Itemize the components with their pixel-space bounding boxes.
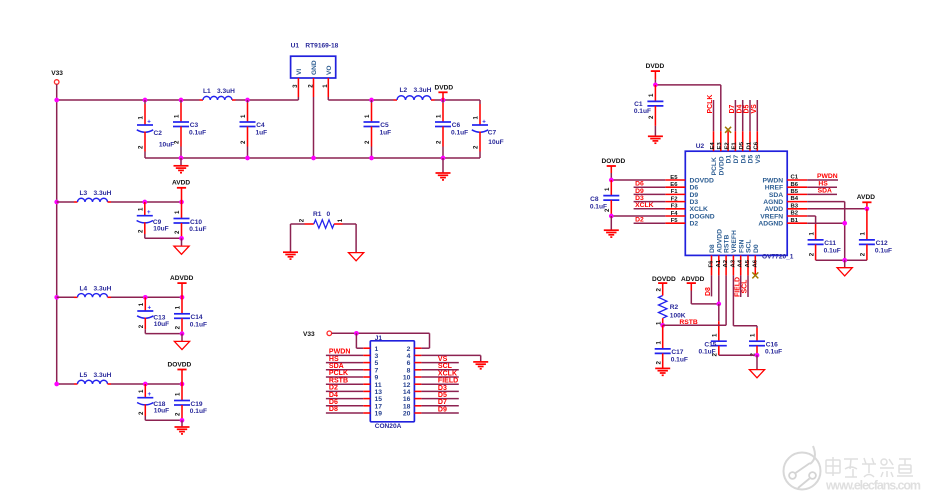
svg-text:17: 17 bbox=[375, 403, 383, 410]
svg-text:6: 6 bbox=[407, 360, 411, 367]
svg-text:F4: F4 bbox=[671, 211, 679, 217]
svg-text:AGND: AGND bbox=[763, 199, 783, 206]
no-connect X on U2 pin A6 bbox=[752, 272, 758, 278]
svg-text:PWDN: PWDN bbox=[763, 177, 784, 184]
image sensor U2 OV7720 bbox=[685, 143, 793, 261]
J1 pin 1 stub bbox=[363, 347, 370, 349]
svg-text:2: 2 bbox=[307, 84, 314, 88]
junction DOGND C8 bbox=[609, 214, 614, 219]
svg-text:2: 2 bbox=[175, 412, 182, 416]
svg-text:RSTB: RSTB bbox=[724, 234, 731, 253]
svg-text:D4: D4 bbox=[740, 155, 747, 164]
svg-text:AVDD: AVDD bbox=[172, 180, 190, 187]
wire V33 top rail bbox=[57, 99, 299, 101]
svg-text:D7: D7 bbox=[733, 155, 740, 164]
U2 right pin B4 AGND stub bbox=[763, 196, 807, 206]
wire PWDN net bbox=[807, 173, 838, 180]
svg-text:18: 18 bbox=[403, 403, 411, 410]
wire C15 C16 ground rail bbox=[719, 354, 757, 356]
inductor L2 3.3uH bbox=[394, 87, 435, 100]
svg-text:L5: L5 bbox=[80, 372, 88, 379]
junction DVDD bbox=[441, 98, 446, 103]
U2 right pin B3 AVDD stub bbox=[765, 203, 808, 213]
svg-text:4: 4 bbox=[407, 353, 411, 360]
wire A1 down to C15 bbox=[718, 304, 720, 341]
wire J1 pin 10 FIELD bbox=[414, 377, 458, 385]
U2 right pin B2 VREFN stub bbox=[760, 211, 807, 221]
svg-text:2: 2 bbox=[240, 140, 247, 144]
svg-text:B6: B6 bbox=[791, 182, 799, 188]
wire AVDD cap ground rail bbox=[145, 237, 182, 239]
svg-text:L4: L4 bbox=[80, 286, 88, 293]
U2 top pin C6 VS bbox=[751, 100, 762, 164]
ground triangle below C14 bbox=[174, 334, 189, 350]
svg-text:0.1uF: 0.1uF bbox=[634, 108, 651, 115]
ground triangle below C10 bbox=[174, 238, 189, 254]
svg-text:V33: V33 bbox=[51, 70, 63, 77]
svg-text:3.3uH: 3.3uH bbox=[94, 372, 112, 379]
svg-text:2: 2 bbox=[436, 140, 443, 144]
wire J1 pin 11 RSTB bbox=[326, 377, 370, 384]
svg-text:1: 1 bbox=[860, 232, 867, 236]
svg-text:DOVDD: DOVDD bbox=[168, 361, 192, 368]
svg-text:0.1uF: 0.1uF bbox=[451, 129, 468, 136]
svg-text:L1: L1 bbox=[203, 88, 211, 95]
svg-text:1: 1 bbox=[322, 84, 329, 88]
svg-text:FSN: FSN bbox=[738, 239, 745, 253]
junction AVDD row left bbox=[54, 200, 59, 205]
svg-text:9: 9 bbox=[375, 375, 379, 382]
U2 right pin B1 ADGND stub bbox=[758, 218, 807, 228]
U1 pin 2 GND bbox=[307, 78, 314, 158]
wire VREFN net bbox=[807, 216, 815, 224]
svg-text:C6: C6 bbox=[452, 122, 461, 129]
svg-text:C17: C17 bbox=[671, 349, 683, 356]
svg-text:0.1uF: 0.1uF bbox=[189, 129, 206, 136]
junction ADVDD stem bbox=[180, 295, 185, 300]
svg-text:2: 2 bbox=[174, 140, 181, 144]
wire J1 pin 18 D9 bbox=[414, 406, 458, 414]
svg-text:1: 1 bbox=[436, 114, 443, 118]
svg-text:U1: U1 bbox=[291, 42, 300, 49]
inductor L3 3.3uH bbox=[74, 190, 112, 202]
capacitor C14 0.1uF bbox=[174, 297, 207, 333]
svg-text:2: 2 bbox=[138, 411, 145, 415]
inductor L5 3.3uH bbox=[74, 372, 112, 384]
wire R1 left down bbox=[290, 224, 292, 252]
svg-text:1: 1 bbox=[174, 210, 181, 214]
svg-text:2: 2 bbox=[808, 252, 815, 256]
svg-text:11: 11 bbox=[375, 382, 382, 389]
wire J1 pin 8 XCLK bbox=[414, 370, 458, 378]
svg-text:0.1uF: 0.1uF bbox=[765, 349, 782, 356]
svg-text:1: 1 bbox=[473, 116, 480, 120]
svg-text:2: 2 bbox=[655, 361, 662, 365]
ground below R1 pin2 bbox=[283, 252, 298, 259]
U2 left pin F5 D2 bbox=[634, 217, 699, 228]
wire SCL net bbox=[742, 275, 749, 297]
svg-text:PCLK: PCLK bbox=[711, 157, 718, 176]
svg-text:A4: A4 bbox=[738, 259, 744, 267]
svg-text:PCLK: PCLK bbox=[707, 95, 714, 114]
svg-text:1: 1 bbox=[138, 207, 145, 211]
svg-text:0: 0 bbox=[327, 211, 331, 218]
svg-text:0.1uF: 0.1uF bbox=[875, 247, 892, 254]
svg-text:0.1uF: 0.1uF bbox=[824, 247, 841, 254]
ground below C17 bbox=[655, 368, 670, 375]
svg-text:D5: D5 bbox=[748, 155, 755, 164]
wire J1 pin 3 PWDN bbox=[326, 349, 370, 356]
svg-text:E6: E6 bbox=[670, 182, 678, 188]
svg-text:2: 2 bbox=[655, 288, 662, 292]
svg-text:C8: C8 bbox=[590, 196, 599, 203]
svg-text:DOVDD: DOVDD bbox=[602, 158, 626, 165]
svg-text:D3: D3 bbox=[690, 199, 699, 206]
svg-text:PCLK: PCLK bbox=[329, 370, 349, 377]
svg-text:10uF: 10uF bbox=[154, 408, 169, 415]
svg-text:D2: D2 bbox=[329, 385, 338, 392]
svg-text:1: 1 bbox=[174, 114, 181, 118]
svg-text:C19: C19 bbox=[191, 401, 203, 408]
svg-text:C1: C1 bbox=[791, 175, 799, 181]
wire ADVDD cap ground rail bbox=[145, 333, 182, 335]
svg-text:RSTB: RSTB bbox=[329, 377, 348, 384]
svg-text:A3: A3 bbox=[730, 259, 736, 267]
svg-text:E3: E3 bbox=[717, 142, 723, 150]
junction AGND ADGND bbox=[842, 221, 847, 226]
junction C4 bottom bbox=[245, 156, 250, 161]
U2 top pin E1 D7 bbox=[729, 100, 740, 164]
capacitor C5 1uF bbox=[364, 100, 392, 158]
svg-text:0.1uF: 0.1uF bbox=[190, 408, 207, 415]
junction DVDD C1 bbox=[653, 83, 658, 88]
wire J1 pin 6 SCL bbox=[414, 363, 458, 371]
svg-text:1: 1 bbox=[750, 333, 757, 337]
svg-text:2: 2 bbox=[138, 145, 145, 149]
wire HS net bbox=[807, 180, 837, 187]
U2 bottom pin A5 SCL bbox=[745, 239, 753, 275]
wire J1 pin 19 D8 bbox=[326, 406, 370, 413]
svg-text:D1: D1 bbox=[746, 141, 752, 149]
ground below C8 bbox=[604, 230, 619, 237]
power ADVDD flag at A1 bbox=[681, 276, 719, 304]
svg-text:1: 1 bbox=[138, 116, 145, 120]
svg-text:DOVDD: DOVDD bbox=[652, 276, 676, 283]
svg-text:HS: HS bbox=[818, 180, 828, 187]
wire AVDD row bbox=[57, 201, 182, 203]
svg-text:2: 2 bbox=[364, 140, 371, 144]
svg-text:VREFH: VREFH bbox=[731, 230, 738, 253]
svg-text:1: 1 bbox=[364, 114, 371, 118]
svg-text:C7: C7 bbox=[488, 129, 497, 136]
svg-text:R1: R1 bbox=[313, 211, 322, 218]
svg-text:PWDN: PWDN bbox=[329, 349, 351, 356]
svg-text:AVDD: AVDD bbox=[857, 194, 875, 201]
svg-text:10uF: 10uF bbox=[154, 321, 169, 328]
U2 top pin D1 D5 bbox=[744, 100, 755, 164]
svg-text:10: 10 bbox=[403, 375, 411, 382]
U2 left pin F3 XCLK bbox=[634, 202, 708, 213]
svg-text:3.3uH: 3.3uH bbox=[414, 87, 432, 94]
power DVDD flag at C1 bbox=[646, 63, 665, 85]
wire DOVDD cap ground rail bbox=[145, 419, 182, 421]
junction DOVDD C8 bbox=[609, 178, 614, 183]
capacitor C2 10uF bbox=[137, 100, 174, 158]
svg-text:A5: A5 bbox=[745, 259, 751, 267]
wire SDA net bbox=[807, 188, 837, 195]
wire J1 pin 5 HS bbox=[326, 356, 370, 363]
wire ADGND net bbox=[807, 222, 845, 224]
capacitor C7 10uF bbox=[472, 104, 504, 158]
svg-text:1: 1 bbox=[648, 93, 655, 97]
svg-text:D7: D7 bbox=[729, 104, 736, 113]
svg-text:1uF: 1uF bbox=[380, 129, 392, 136]
svg-text:A1: A1 bbox=[716, 259, 722, 267]
ground triangle below AVDD rail bbox=[837, 260, 852, 276]
capacitor C12 0.1uF bbox=[859, 209, 892, 260]
capacitor C17 0.1uF bbox=[655, 325, 688, 368]
junction AVDD ground rail bbox=[179, 236, 184, 241]
junction AVDD stem bbox=[179, 200, 184, 205]
watermark elecfans logo bbox=[784, 446, 922, 493]
svg-text:+: + bbox=[147, 118, 151, 125]
junction C5 bottom bbox=[369, 156, 374, 161]
svg-text:C2: C2 bbox=[154, 130, 163, 137]
svg-text:2: 2 bbox=[712, 353, 719, 357]
wire ADVDD row bbox=[57, 296, 182, 298]
svg-text:2: 2 bbox=[407, 346, 411, 353]
svg-text:2: 2 bbox=[175, 325, 182, 329]
U2 right pin B5 SDA stub bbox=[769, 189, 807, 199]
svg-text:D8: D8 bbox=[709, 244, 716, 253]
wire AVDD net bbox=[807, 208, 867, 210]
svg-text:D8: D8 bbox=[329, 406, 338, 413]
svg-text:C14: C14 bbox=[191, 314, 203, 321]
svg-text:D8: D8 bbox=[705, 287, 712, 296]
svg-text:10uF: 10uF bbox=[488, 139, 503, 146]
wire AVDD ground rail bbox=[816, 259, 867, 261]
svg-text:RSTB: RSTB bbox=[679, 319, 698, 326]
svg-text:13: 13 bbox=[375, 389, 383, 396]
svg-text:1: 1 bbox=[240, 114, 247, 118]
svg-text:C6: C6 bbox=[754, 141, 760, 149]
svg-text:3.3uH: 3.3uH bbox=[217, 88, 235, 95]
U2 right pin B6 HREF stub bbox=[765, 182, 807, 192]
svg-text:D1: D1 bbox=[726, 155, 733, 164]
svg-text:DOVDD: DOVDD bbox=[690, 177, 715, 184]
svg-text:2: 2 bbox=[174, 230, 181, 234]
U2 top pin E4 PCLK bbox=[707, 95, 718, 176]
U2 bottom pin F6 D8 bbox=[709, 244, 717, 275]
svg-text:1: 1 bbox=[712, 333, 719, 337]
power ADVDD flag bbox=[170, 275, 194, 297]
capacitor C3 0.1uF bbox=[173, 100, 206, 158]
junction ADVDD A1 bbox=[716, 302, 721, 307]
wire FIELD net bbox=[734, 275, 741, 297]
svg-text:A2: A2 bbox=[723, 259, 729, 267]
junction C13 top bbox=[143, 295, 148, 300]
svg-text:1: 1 bbox=[375, 346, 379, 353]
junction C18 top bbox=[143, 382, 148, 387]
svg-text:ADVDD: ADVDD bbox=[681, 276, 705, 283]
wire ADVDD to A1 bbox=[718, 275, 720, 304]
capacitor C10 0.1uF bbox=[174, 202, 207, 238]
svg-text:B5: B5 bbox=[791, 189, 799, 195]
svg-text:VI: VI bbox=[296, 69, 303, 75]
svg-text:3: 3 bbox=[292, 84, 299, 88]
U2 bottom pin A4 FSN bbox=[738, 239, 746, 275]
wire J1 pin 14 D5 bbox=[414, 391, 458, 399]
svg-text:E4: E4 bbox=[710, 142, 716, 150]
resistor R2 100K bbox=[655, 288, 685, 326]
wire J1 pin 20 bbox=[414, 412, 458, 414]
svg-text:D4: D4 bbox=[736, 104, 743, 113]
svg-text:1: 1 bbox=[337, 218, 344, 222]
svg-text:RT9169-18: RT9169-18 bbox=[305, 42, 338, 49]
svg-text:+: + bbox=[148, 391, 152, 398]
svg-text:DOGND: DOGND bbox=[690, 213, 715, 220]
junction ADVDD ground rail bbox=[180, 331, 185, 336]
junction C2 top bbox=[143, 98, 148, 103]
svg-text:D5: D5 bbox=[744, 104, 751, 113]
capacitor C18 10uF bbox=[137, 384, 169, 420]
wire J1 pin 13 D2 bbox=[326, 385, 370, 392]
svg-text:D3: D3 bbox=[635, 195, 644, 202]
U2 left pin F2 D3 bbox=[634, 195, 699, 206]
capacitor C6 0.1uF bbox=[435, 100, 468, 158]
svg-text:10uF: 10uF bbox=[153, 226, 168, 233]
no-connect X on U2 pin E2 bbox=[725, 127, 731, 133]
svg-text:E2: E2 bbox=[724, 142, 730, 150]
U1 pin 1 VO bbox=[322, 78, 329, 100]
capacitor C8 0.1uF bbox=[590, 180, 619, 216]
svg-text:CON20A: CON20A bbox=[375, 423, 402, 430]
svg-text:VS: VS bbox=[755, 154, 762, 164]
svg-text:B4: B4 bbox=[791, 196, 799, 202]
wire V33 vertical rail bbox=[56, 84, 58, 384]
svg-text:HS: HS bbox=[329, 356, 339, 363]
resistor R1 0 bbox=[291, 211, 357, 228]
svg-text:VS: VS bbox=[751, 104, 758, 114]
svg-text:+: + bbox=[482, 118, 486, 125]
svg-text:1uF: 1uF bbox=[256, 129, 268, 136]
svg-text:F1: F1 bbox=[671, 189, 679, 195]
svg-text:2: 2 bbox=[138, 229, 145, 233]
svg-text:+: + bbox=[148, 304, 152, 311]
wire VREFH to C16 bbox=[733, 275, 757, 341]
junction C5 top bbox=[369, 98, 374, 103]
svg-text:V33: V33 bbox=[303, 331, 315, 338]
svg-text:2: 2 bbox=[604, 208, 611, 212]
svg-text:R2: R2 bbox=[670, 304, 679, 311]
svg-text:2: 2 bbox=[860, 252, 867, 256]
junction C3 top bbox=[179, 98, 184, 103]
junction U1 GND bottom bbox=[311, 156, 316, 161]
capacitor C16 0.1uF bbox=[749, 333, 782, 357]
svg-text:ADVDD: ADVDD bbox=[170, 275, 194, 282]
wire J1 pin 12 D3 bbox=[414, 384, 458, 392]
svg-text:SDA: SDA bbox=[818, 188, 832, 195]
svg-text:B3: B3 bbox=[791, 203, 799, 209]
U2 top pin E3 DVDD bbox=[717, 131, 725, 175]
wire top-block ground rail bbox=[145, 157, 480, 159]
svg-text:C11: C11 bbox=[824, 240, 836, 247]
ground triangle below R1 pin1 bbox=[349, 253, 364, 261]
svg-text:B2: B2 bbox=[791, 211, 799, 217]
svg-text:C10: C10 bbox=[190, 219, 202, 226]
ground at J1 pin 4 bbox=[473, 355, 488, 368]
svg-text:1: 1 bbox=[175, 392, 182, 396]
capacitor C13 10uF bbox=[137, 297, 169, 333]
svg-text:C3: C3 bbox=[190, 122, 199, 129]
ground triangle below C16 bbox=[749, 355, 764, 378]
svg-text:D4: D4 bbox=[329, 392, 338, 399]
svg-text:12: 12 bbox=[403, 382, 411, 389]
svg-text:ADVDD: ADVDD bbox=[716, 229, 723, 253]
junction C3 bottom bbox=[179, 156, 184, 161]
svg-text:L3: L3 bbox=[80, 190, 88, 197]
U2 bottom pin A3 VREFH bbox=[730, 230, 738, 275]
svg-text:DVDD: DVDD bbox=[646, 63, 665, 70]
svg-text:SDA: SDA bbox=[329, 363, 344, 370]
capacitor C19 0.1uF bbox=[174, 384, 207, 420]
svg-text:AVDD: AVDD bbox=[765, 206, 784, 213]
svg-text:PWDN: PWDN bbox=[817, 173, 838, 180]
ground below C19 bbox=[175, 420, 190, 434]
U1 pin 3 VI bbox=[292, 78, 299, 100]
wire J1 pin 4 VS to ground bbox=[414, 355, 480, 363]
wire J1 pin 17 D6 bbox=[326, 399, 370, 406]
junction C4 top bbox=[245, 98, 250, 103]
svg-text:1: 1 bbox=[655, 341, 662, 345]
wire J1 pin 15 D4 bbox=[326, 392, 370, 399]
svg-text:5: 5 bbox=[375, 360, 379, 367]
svg-text:F3: F3 bbox=[671, 204, 679, 210]
junction V33 rail bbox=[54, 98, 59, 103]
J1 pin 2 stub bbox=[414, 347, 421, 349]
wire V33 to J1 bbox=[332, 333, 430, 348]
svg-text:C16: C16 bbox=[766, 342, 778, 349]
svg-text:19: 19 bbox=[375, 411, 383, 418]
svg-text:7: 7 bbox=[375, 367, 379, 374]
wire V33 down to pin1 bbox=[356, 333, 363, 348]
svg-text:C5: C5 bbox=[380, 122, 389, 129]
svg-text:F5: F5 bbox=[671, 218, 679, 224]
svg-text:2: 2 bbox=[473, 145, 480, 149]
wire J1 pin 7 SDA bbox=[326, 363, 370, 370]
J1 pin numbers bbox=[375, 346, 411, 418]
junction DOVDD row left bbox=[54, 382, 59, 387]
U2 left pin F1 D9 bbox=[634, 188, 699, 199]
junction ADVDD row left bbox=[54, 295, 59, 300]
svg-text:3: 3 bbox=[375, 353, 379, 360]
svg-text:D6: D6 bbox=[635, 181, 644, 188]
svg-text:DVDD: DVDD bbox=[718, 156, 725, 175]
svg-text:L2: L2 bbox=[400, 87, 408, 94]
ground below C1 bbox=[648, 136, 663, 143]
wire C8 to ground bbox=[610, 216, 612, 230]
capacitor C4 1uF bbox=[240, 100, 268, 158]
wire DVDD to U2 pin E3 bbox=[655, 85, 720, 131]
svg-text:VREFN: VREFN bbox=[760, 213, 783, 220]
U2 bottom pin A6 D0 bbox=[752, 244, 760, 275]
svg-text:15: 15 bbox=[375, 396, 383, 403]
U2 bottom pin A1 ADVDD bbox=[716, 229, 724, 276]
junction DOVDD ground rail bbox=[180, 418, 185, 423]
junction DOVDD stem bbox=[180, 382, 185, 387]
svg-text:HREF: HREF bbox=[765, 185, 783, 192]
svg-text:D5: D5 bbox=[739, 141, 745, 149]
